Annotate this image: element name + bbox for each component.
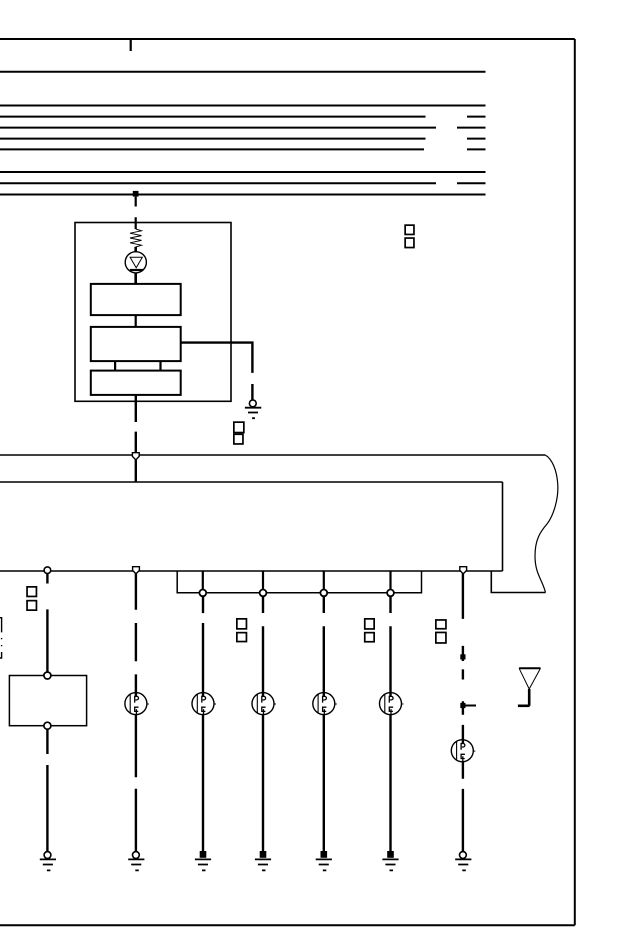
junction on bus row 9: [133, 191, 139, 197]
ground GG (open circle): [455, 852, 471, 871]
wire into coil: [135, 223, 137, 230]
stub wire right of W6: [463, 705, 476, 707]
node top of left box: [44, 672, 51, 679]
bus wire row 6: [0, 148, 486, 150]
pin node D on ECM bottom: [460, 567, 467, 574]
coil (resistor zigzag): [130, 229, 142, 247]
wire left box to ground: [46, 729, 48, 852]
wire box2 to ground G1: [181, 343, 253, 400]
ECM top edge: [0, 454, 545, 456]
relay inner box 3: [91, 371, 181, 395]
sensor S2: [192, 693, 216, 715]
pin node B on ECM bottom: [133, 567, 140, 574]
bus wire row 5: [0, 138, 486, 140]
junction dot on W6: [460, 654, 465, 659]
connector label squares F: [436, 620, 446, 643]
bus wire row 4: [0, 127, 486, 129]
connector node 3 on shallow box: [320, 590, 327, 597]
ground G1 circle: [249, 400, 256, 407]
tick on top frame: [130, 39, 132, 51]
ground GE (filled dot): [316, 851, 332, 870]
wire box1 to box2: [135, 315, 137, 327]
connector label squares D: [237, 619, 247, 642]
pump bottom bar: [130, 269, 143, 271]
ground GB (open circle): [128, 852, 144, 871]
ECM inner right edge: [502, 482, 504, 571]
antenna symbol: [518, 668, 541, 706]
connector label squares B: [234, 422, 244, 444]
connector label squares A: [405, 225, 414, 247]
connector label squares C: [27, 587, 36, 610]
connector node 2 on shallow box: [260, 590, 267, 597]
pin node C on ECM bottom: [44, 567, 51, 574]
bus wire row 3: [0, 116, 486, 118]
relay outer box: [75, 223, 231, 402]
frame top line: [0, 38, 575, 40]
wire column W4: [323, 596, 325, 853]
sensor S5: [380, 693, 404, 715]
connector node 1 on shallow box: [199, 590, 206, 597]
wire column W1: [135, 573, 137, 852]
left component box: [9, 676, 86, 726]
sensor S3: [252, 693, 276, 715]
sensor S6: [451, 740, 475, 762]
bus wire row 8: [0, 182, 486, 184]
component cut at left edge: [0, 618, 2, 658]
ground GD (filled dot): [255, 851, 271, 870]
relay inner box 2: [91, 327, 181, 361]
wire column W5: [389, 596, 391, 853]
sensor S1: [125, 693, 149, 715]
pump triangle: [130, 257, 142, 268]
junction dot with stub on W6: [460, 703, 465, 708]
wire column W2: [202, 596, 204, 853]
pin node A on ECM top: [132, 453, 139, 460]
wire box2 to box3 right: [159, 361, 161, 371]
ground GA (open circle): [40, 852, 56, 871]
ground GC (filled dot): [195, 851, 211, 870]
shallow connector box: [177, 571, 421, 593]
frame bottom line: [0, 924, 575, 926]
connector node 4 on shallow box: [387, 590, 394, 597]
ECM bottom edge: [0, 570, 503, 572]
ground GF (filled dot): [382, 851, 398, 870]
wire stubs through shallow box: [203, 571, 391, 590]
bus wire row 1: [0, 71, 486, 73]
ECM inner top edge: [0, 481, 503, 483]
frame right border: [574, 39, 576, 925]
sensor S4: [313, 693, 337, 715]
wire column W6: [462, 574, 464, 852]
pump motor circle: [125, 252, 146, 273]
node bottom of left box: [44, 722, 51, 729]
wire box3 to ECM node: [135, 395, 137, 453]
wire box2 to box3 left: [114, 361, 116, 371]
connector label squares E: [365, 619, 374, 642]
wire column W3: [262, 596, 264, 853]
wire pump to box1: [134, 273, 137, 284]
relay inner box 1: [91, 284, 181, 315]
ECM bottom step: [491, 571, 545, 593]
bus wire row 2: [0, 105, 486, 107]
wire node A into ECM: [135, 460, 137, 482]
ECM torn edge: [535, 455, 558, 593]
wire ECM to left box: [46, 574, 48, 672]
bus wire row 9: [0, 194, 486, 196]
wire coil to pump: [134, 247, 137, 252]
bus wire row 7: [0, 171, 486, 173]
dashed wire bus to relay box: [135, 197, 137, 224]
ground G1 bars: [245, 408, 261, 419]
